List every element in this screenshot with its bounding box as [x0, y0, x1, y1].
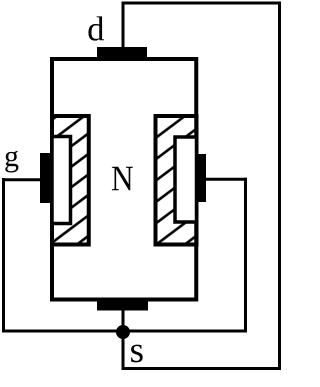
wire source horizontal: [2, 330, 247, 333]
wire outer right vertical: [278, 2, 281, 371]
gate contact bar left: [40, 153, 50, 203]
wire gate right horizontal: [206, 178, 247, 181]
gate contact bar right: [198, 154, 206, 202]
source contact bar: [97, 302, 148, 311]
P region right (hatched): [156, 116, 197, 245]
wire left vertical: [2, 178, 5, 333]
label g: [5, 151, 18, 173]
junction dot s: [116, 325, 130, 339]
body N region: [52, 59, 196, 300]
wire outer bottom horizontal: [122, 367, 282, 370]
depletion box left (white): [52, 137, 71, 224]
label N: [112, 167, 133, 191]
P region left (hatched): [52, 116, 89, 245]
label s: [131, 345, 143, 363]
wire source stub vertical: [122, 308, 125, 370]
wire top horizontal: [122, 2, 282, 5]
wire drain top vertical: [122, 2, 125, 47]
drain contact bar: [97, 47, 147, 58]
wire inner right vertical: [244, 178, 247, 331]
label d: [88, 16, 104, 40]
wire gate left horizontal: [2, 178, 40, 181]
depletion box right (white): [175, 137, 197, 222]
